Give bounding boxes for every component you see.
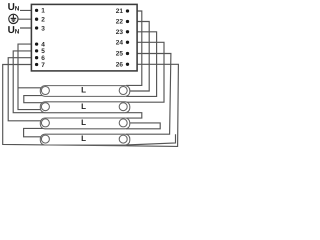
pin 23 dot: [126, 30, 129, 33]
lamp L2 tube: [40, 102, 130, 113]
svg-text:L: L: [81, 86, 86, 95]
lamp L3 left filament circle: [41, 119, 49, 127]
wire pin 23 to lamp L1 bottom edge extension: [126, 32, 157, 97]
wire pin 22 to lamp L1 right face: [128, 22, 150, 92]
pin 26 dot: [126, 63, 129, 66]
pin 7 dot: [35, 63, 38, 66]
wire earth to pin 2: [19, 18, 37, 20]
lamp L1 left filament circle: [41, 87, 49, 95]
svg-text:1: 1: [41, 8, 45, 15]
lamp L2 left filament circle: [41, 103, 49, 111]
pin 21 dot: [126, 9, 129, 12]
pin 24 dot: [126, 41, 129, 44]
svg-text:25: 25: [116, 51, 124, 58]
lamp L3 tube: [40, 118, 130, 129]
wire pin 25 to lamp L4 top edge: [126, 54, 171, 135]
wire pin 7 bottom link to pin 26: [3, 64, 179, 146]
lamp L1 tube: [40, 86, 130, 97]
lamp L3 bottom edge extension and right face loop: [126, 123, 160, 129]
lamp L3 right filament circle: [119, 119, 127, 127]
svg-text:L: L: [81, 134, 86, 143]
wire pin 24 to lamp L2 top edge: [126, 42, 164, 102]
junction lamp L1 filament bottom to lamp L2 left filament: [24, 96, 47, 103]
pin 25 dot: [126, 52, 129, 55]
svg-text:U: U: [8, 2, 15, 13]
svg-text:L: L: [81, 118, 86, 127]
svg-text:24: 24: [116, 40, 124, 47]
pin 5 dot: [35, 49, 38, 52]
svg-text:21: 21: [116, 8, 124, 15]
pin 3 dot: [35, 26, 38, 29]
svg-text:U: U: [8, 25, 15, 36]
junction lamp L3 filament bottom to lamp L4 left filament: [24, 128, 47, 136]
svg-text:26: 26: [116, 62, 124, 69]
pin 1 dot: [35, 9, 38, 12]
svg-text:3: 3: [41, 25, 45, 32]
wire pin 21 to lamp L1 top edge: [126, 11, 142, 85]
lamp L2 right filament circle: [119, 103, 127, 111]
wire U_N to pin 3: [20, 27, 37, 29]
svg-text:22: 22: [116, 19, 124, 26]
lamp L4 right filament circle: [119, 135, 127, 143]
svg-text:L: L: [81, 102, 86, 111]
svg-text:23: 23: [116, 29, 124, 36]
svg-text:N: N: [15, 6, 20, 13]
pin 6 dot: [35, 56, 38, 59]
lamp L4 bottom edge right loop: [126, 134, 176, 145]
pin 22 dot: [126, 20, 129, 23]
wire pin 5 to lamp L2 bottom edge and lamp L3 top edge: [13, 51, 142, 118]
lamp L4 left filament circle: [41, 135, 49, 143]
wire U_N to pin 1: [20, 9, 37, 11]
lamp L4 tube: [40, 134, 130, 145]
earth symbol: [9, 14, 18, 23]
pin 2 dot: [35, 18, 38, 21]
svg-text:2: 2: [41, 17, 45, 24]
ballast box: [31, 4, 137, 71]
wire pin 6 to lamp L3 left filament: [8, 58, 42, 121]
pin 4 dot: [35, 42, 38, 45]
lamp L1 right filament circle: [119, 87, 127, 95]
svg-text:N: N: [15, 29, 20, 36]
svg-text:7: 7: [41, 62, 45, 69]
wire pin 4 to lamp L1 left filament: [18, 44, 43, 110]
